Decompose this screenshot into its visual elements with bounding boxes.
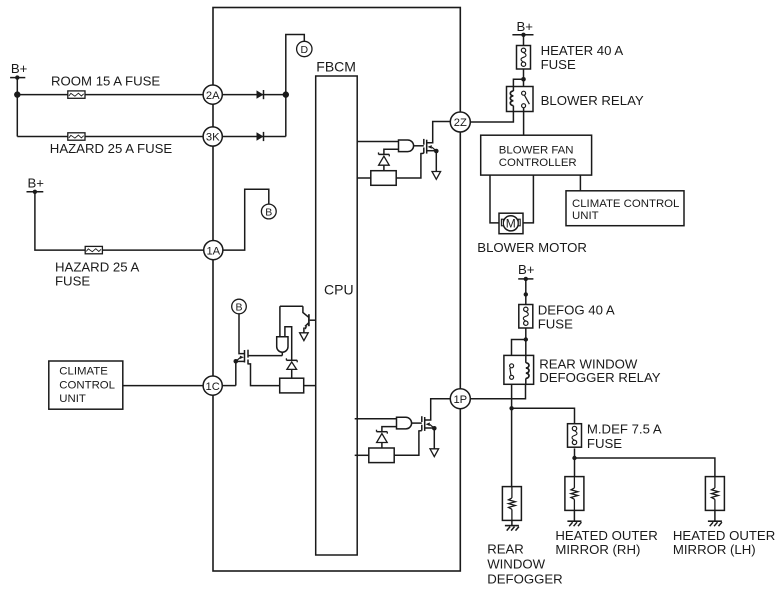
svg-text:2A: 2A [206,90,220,102]
svg-text:REAR: REAR [487,542,524,557]
svg-text:UNIT: UNIT [572,210,599,222]
svg-text:D: D [301,44,309,56]
svg-text:BLOWER MOTOR: BLOWER MOTOR [477,240,587,255]
svg-text:HAZARD 25 A FUSE: HAZARD 25 A FUSE [50,141,173,156]
svg-text:1A: 1A [206,245,220,257]
svg-text:DEFOGGER: DEFOGGER [487,571,562,586]
svg-text:FUSE: FUSE [587,436,622,451]
svg-text:1P: 1P [453,394,467,406]
svg-text:B+: B+ [517,19,534,34]
svg-text:WINDOW: WINDOW [487,557,545,572]
svg-text:MIRROR (LH): MIRROR (LH) [673,542,756,557]
svg-text:3K: 3K [206,132,220,144]
svg-text:CPU: CPU [324,282,354,298]
svg-text:FUSE: FUSE [541,57,576,72]
svg-text:B+: B+ [28,175,45,190]
svg-text:CONTROLLER: CONTROLLER [499,157,577,169]
svg-text:B: B [265,207,272,219]
svg-text:FUSE: FUSE [538,316,573,331]
svg-text:2Z: 2Z [454,117,467,129]
svg-text:CLIMATE CONTROL: CLIMATE CONTROL [572,198,679,210]
svg-text:FBCM: FBCM [316,59,356,75]
svg-text:UNIT: UNIT [59,393,86,405]
svg-text:HEATER 40 A: HEATER 40 A [541,43,624,58]
svg-text:ROOM 15 A FUSE: ROOM 15 A FUSE [51,74,160,89]
svg-text:M.DEF 7.5 A: M.DEF 7.5 A [587,422,662,437]
svg-text:B+: B+ [11,61,28,76]
svg-text:B+: B+ [518,262,535,277]
svg-text:DEFOGGER RELAY: DEFOGGER RELAY [539,370,661,385]
svg-text:DEFOG 40 A: DEFOG 40 A [538,303,615,318]
svg-text:CONTROL: CONTROL [59,379,115,391]
svg-text:B: B [235,302,242,314]
svg-text:BLOWER RELAY: BLOWER RELAY [541,93,644,108]
svg-text:REAR WINDOW: REAR WINDOW [539,356,638,371]
svg-text:FUSE: FUSE [55,274,90,289]
svg-text:CLIMATE: CLIMATE [59,365,108,377]
svg-text:M: M [506,217,516,231]
svg-text:MIRROR (RH): MIRROR (RH) [555,542,640,557]
svg-text:HEATED OUTER: HEATED OUTER [555,528,657,543]
svg-text:1C: 1C [206,381,220,393]
svg-text:HEATED OUTER: HEATED OUTER [673,528,775,543]
svg-text:HAZARD 25 A: HAZARD 25 A [55,260,139,275]
svg-text:BLOWER FAN: BLOWER FAN [499,145,574,157]
